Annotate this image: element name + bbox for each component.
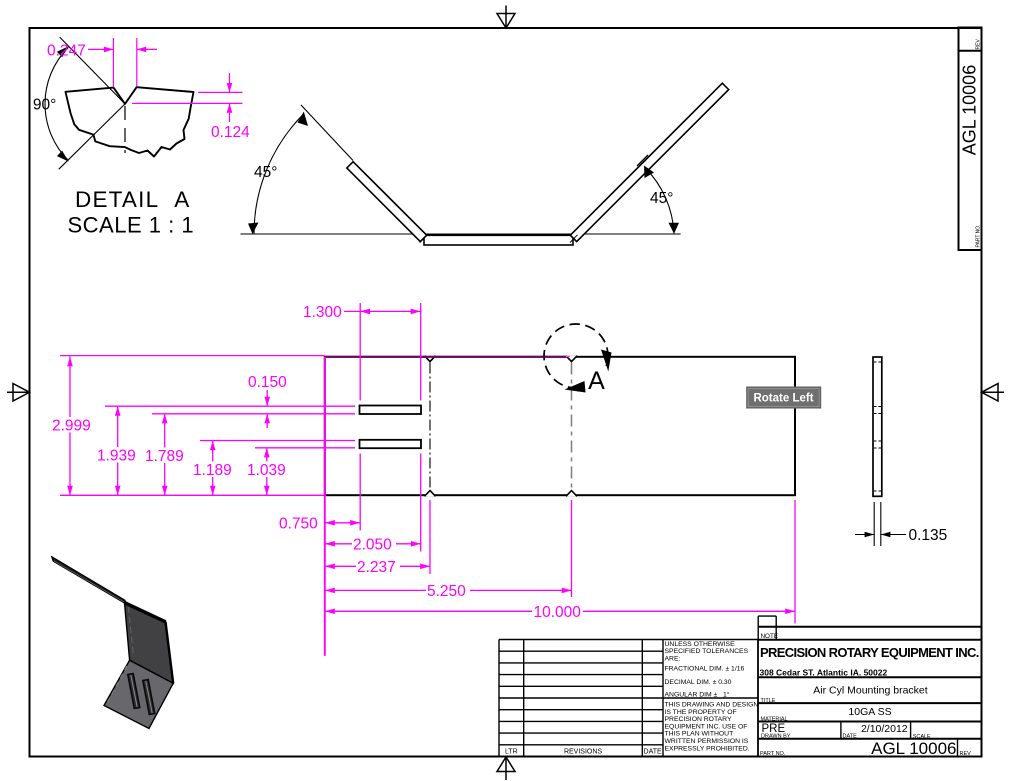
svg-text:PART NO.: PART NO. <box>976 224 982 247</box>
svg-text:THIS PLAN WITHOUT: THIS PLAN WITHOUT <box>665 731 734 738</box>
svg-text:NOTE: NOTE <box>761 633 779 640</box>
svg-text:SCALE 1 : 1: SCALE 1 : 1 <box>68 213 195 238</box>
svg-text:EQUIPMENT INC. USE OF: EQUIPMENT INC. USE OF <box>665 723 748 730</box>
svg-text:0.135: 0.135 <box>909 527 948 544</box>
svg-text:REV: REV <box>960 751 972 757</box>
svg-text:DRAWN BY: DRAWN BY <box>761 733 791 739</box>
svg-text:ANGULAR DIM ± 1°: ANGULAR DIM ± 1° <box>665 691 730 699</box>
svg-text:PRECISION ROTARY: PRECISION ROTARY <box>665 716 732 723</box>
svg-text:AGL 10006: AGL 10006 <box>871 739 956 758</box>
svg-text:0.150: 0.150 <box>248 374 287 391</box>
svg-text:45°: 45° <box>254 164 277 181</box>
svg-text:0.247: 0.247 <box>47 43 86 60</box>
svg-text:2.999: 2.999 <box>52 418 91 435</box>
svg-text:WRITTEN PERMISSION IS: WRITTEN PERMISSION IS <box>665 738 749 745</box>
svg-text:10GA SS: 10GA SS <box>848 706 891 718</box>
svg-text:THIS DRAWING AND DESIGN: THIS DRAWING AND DESIGN <box>665 702 759 709</box>
svg-text:DETAIL A: DETAIL A <box>75 187 190 212</box>
svg-text:5.250: 5.250 <box>427 583 466 600</box>
svg-text:0.124: 0.124 <box>211 124 250 141</box>
svg-text:EXPRESSLY PROHIBITED.: EXPRESSLY PROHIBITED. <box>665 745 750 752</box>
svg-text:2.237: 2.237 <box>357 559 396 576</box>
svg-text:REVISIONS: REVISIONS <box>564 748 602 755</box>
svg-text:1.789: 1.789 <box>145 448 184 465</box>
svg-text:1.039: 1.039 <box>247 462 286 479</box>
svg-text:IS THE PROPERTY OF: IS THE PROPERTY OF <box>665 709 737 716</box>
svg-text:A: A <box>588 367 605 395</box>
svg-text:2.050: 2.050 <box>353 537 392 554</box>
svg-text:90°: 90° <box>33 97 56 114</box>
svg-text:DECIMAL DIM. ± 0.30: DECIMAL DIM. ± 0.30 <box>665 679 732 686</box>
svg-text:PART NO.: PART NO. <box>760 751 786 757</box>
svg-text:MATERIAL: MATERIAL <box>761 717 788 723</box>
svg-text:FRACTIONAL DIM. ± 1/16: FRACTIONAL DIM. ± 1/16 <box>665 666 745 673</box>
svg-text:UNLESS OTHERWISE: UNLESS OTHERWISE <box>665 641 736 648</box>
svg-text:PRECISION ROTARY EQUIPMENT INC: PRECISION ROTARY EQUIPMENT INC. <box>760 645 979 660</box>
svg-text:DATE: DATE <box>843 733 858 739</box>
svg-text:LTR: LTR <box>505 748 518 755</box>
svg-text:10.000: 10.000 <box>534 604 582 621</box>
svg-text:308 Cedar ST. Atlantic IA. 500: 308 Cedar ST. Atlantic IA. 50022 <box>760 668 888 678</box>
svg-text:0.750: 0.750 <box>279 516 318 533</box>
svg-text:TITLE: TITLE <box>761 698 776 704</box>
svg-text:Air Cyl Mounting bracket: Air Cyl Mounting bracket <box>813 685 927 697</box>
svg-text:1.189: 1.189 <box>193 462 232 479</box>
svg-text:AGL 10006: AGL 10006 <box>960 65 980 155</box>
svg-text:SPECIFIED TOLERANCES: SPECIFIED TOLERANCES <box>665 648 749 655</box>
svg-text:DATE: DATE <box>644 748 662 755</box>
svg-text:REV: REV <box>976 39 982 50</box>
svg-text:1.300: 1.300 <box>303 304 342 321</box>
svg-text:ARE:: ARE: <box>665 655 681 662</box>
svg-text:1.939: 1.939 <box>97 448 136 465</box>
svg-text:Rotate Left: Rotate Left <box>753 393 813 405</box>
svg-text:2/10/2012: 2/10/2012 <box>861 723 908 735</box>
svg-text:45°: 45° <box>650 190 673 207</box>
